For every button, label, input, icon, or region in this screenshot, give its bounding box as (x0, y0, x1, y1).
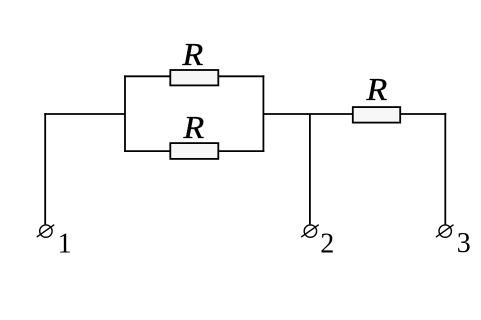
terminal 3 symbol: slash (436, 225, 454, 237)
terminal 2 symbol: slash (301, 225, 319, 237)
wire: bottom branch right segment (218, 150, 264, 152)
terminal 1 symbol: slash (37, 225, 55, 237)
wire: main axis from parallel block to series resistor (263, 113, 353, 115)
svg-text:R: R (183, 111, 205, 146)
resistor R (series, right) body (353, 107, 400, 123)
svg-text:1: 1 (58, 228, 72, 259)
wire: top branch left segment (124, 75, 170, 77)
wire: parallel block right vertical bar (262, 75, 264, 152)
resistor R (bottom parallel branch) body (170, 143, 218, 159)
terminal 3 symbol: open circle (439, 225, 451, 237)
label R (bottom resistor value) (183, 111, 205, 146)
wire: main axis from series resistor to right corner (400, 113, 446, 115)
svg-text:R: R (365, 73, 387, 108)
resistor R (top parallel branch) body (170, 70, 218, 85)
label R (top resistor value) (182, 38, 204, 73)
node 2 junction: riser from main axis down to terminal 2 (309, 114, 311, 224)
terminal 2 symbol: open circle (304, 225, 316, 237)
svg-text:3: 3 (457, 228, 471, 259)
terminal 1 symbol: open circle (40, 225, 52, 237)
wire: node 3 riser (right corner down to terminal 3) (444, 113, 446, 224)
label R (series resistor value) (365, 73, 387, 108)
svg-text:2: 2 (320, 228, 334, 259)
wire: node 1 riser (terminal 1 up to main axis) (44, 113, 46, 224)
wire: bottom branch left segment (124, 150, 170, 152)
wire: main axis from node 1 to parallel block left bar (44, 113, 125, 115)
wire: parallel block left vertical bar (124, 75, 126, 152)
wire: top branch right segment (218, 75, 264, 77)
svg-text:R: R (182, 38, 204, 73)
